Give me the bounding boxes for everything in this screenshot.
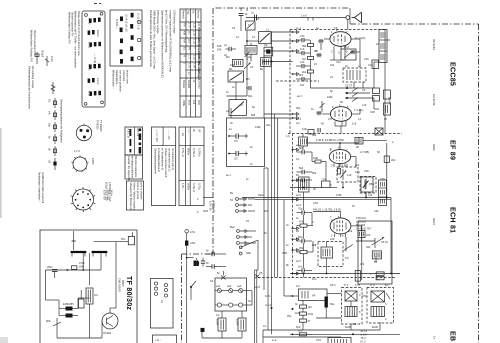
svg-text:on transmitter unit 1): on transmitter unit 1) <box>168 148 172 172</box>
svg-text:104: 104 <box>192 100 196 105</box>
smoothing cap block <box>79 299 85 308</box>
svg-text:0,1: 0,1 <box>263 324 267 328</box>
svg-text:2M5: 2M5 <box>282 251 288 255</box>
svg-text:92 9x61: 92 9x61 <box>432 39 436 50</box>
svg-text:1n5: 1n5 <box>352 122 357 126</box>
svg-text:30p: 30p <box>248 94 253 98</box>
cathode resistor V2 <box>338 164 341 174</box>
svg-text:an 3: an 3 <box>296 117 302 121</box>
tuning gang switch contacts <box>345 87 370 101</box>
screen decoupling Ca <box>322 177 331 188</box>
FM bottom row components <box>302 127 320 134</box>
svg-text:Kl. 2: Kl. 2 <box>361 340 367 343</box>
caps left of V3 <box>297 207 314 273</box>
svg-text:an 8: an 8 <box>255 285 261 289</box>
svg-text:d1 d2: d1 d2 <box>87 64 91 71</box>
switch-position box B (M404 coil board) <box>110 10 142 66</box>
AGC bus pair <box>242 197 391 199</box>
terminal t2 <box>292 40 294 42</box>
svg-text:TF80/30: TF80/30 <box>96 120 100 130</box>
svg-text:5k0: 5k0 <box>299 166 304 170</box>
junction dots on buses <box>303 187 305 189</box>
svg-text:1,25: 1,25 <box>193 23 197 29</box>
grid resistor r1 <box>296 39 302 41</box>
svg-text:La3: La3 <box>237 284 242 288</box>
padder trimmer diagonal <box>372 238 389 247</box>
capacitor C1 <box>239 12 248 31</box>
FM box input terminal arrows <box>292 31 299 120</box>
svg-text:TA: TA <box>230 198 233 202</box>
cap k2 <box>228 151 248 161</box>
svg-text:C15: C15 <box>364 57 369 61</box>
svg-text:EF 89: EF 89 <box>449 140 457 160</box>
coupling caps to terminals <box>206 249 226 269</box>
svg-text:87,5: 87,5 <box>187 100 191 106</box>
svg-text:39k: 39k <box>302 44 307 48</box>
right edge filter upper <box>384 90 391 99</box>
svg-text:an 9: an 9 <box>296 203 302 207</box>
svg-text:UF: UF <box>198 129 202 133</box>
svg-text:M1: M1 <box>229 67 233 71</box>
svg-text:F46.03 L.16.78/L.1.8.05: F46.03 L.16.78/L.1.8.05 <box>313 208 341 212</box>
svg-text:6SnDB: 6SnDB <box>187 80 191 88</box>
spark suppressor 2 <box>255 271 263 278</box>
pilot lamp 1 <box>217 289 221 293</box>
svg-text:Minuspol der Batterie an: Minuspol der Batterie an <box>129 183 133 211</box>
left column long wires <box>246 8 248 11</box>
svg-text:8,2: 8,2 <box>385 283 389 287</box>
svg-text:1M0: 1M0 <box>313 156 319 160</box>
corner screw bottom-left <box>84 102 87 105</box>
svg-text:Tr 2: Tr 2 <box>370 283 375 287</box>
svg-text:+ === 12V: + === 12V <box>155 130 159 142</box>
svg-text:ECH 81: ECH 81 <box>449 207 457 233</box>
FM box interior resistor chain <box>296 34 314 81</box>
svg-text:12k: 12k <box>348 229 353 233</box>
svg-text:5,0k: 5,0k <box>302 127 308 131</box>
svg-text:Ratio: Ratio <box>258 193 265 197</box>
small cap below M1 <box>246 86 251 90</box>
coil contact b-r4 <box>130 46 133 51</box>
svg-text:0,78/0u: 0,78/0u <box>198 148 202 157</box>
svg-text:F 46 B K2./BFG.L./4780.: F 46 B K2./BFG.L./4780. <box>316 138 345 142</box>
caps left of V2 <box>297 146 313 182</box>
svg-text:10n: 10n <box>298 265 303 269</box>
svg-text:m: m <box>192 80 195 82</box>
svg-text:EB: EB <box>449 331 457 341</box>
electrolytic cap vertical <box>325 297 328 308</box>
oscillator coil assembly L6/L7 <box>343 64 366 82</box>
fuse <box>185 241 188 246</box>
svg-text:a1 a2: a1 a2 <box>87 18 91 25</box>
svg-text:modification rights reserved: modification rights reserved <box>41 172 45 204</box>
terminal R1 <box>164 283 167 286</box>
svg-text:1x: 1x <box>433 336 437 340</box>
svg-text:1,35: 1,35 <box>193 31 197 37</box>
legend symbol trimmer <box>45 56 54 66</box>
scan edge shading left <box>0 128 2 218</box>
svg-text:40p: 40p <box>266 123 271 127</box>
svg-text:C1: C1 <box>232 26 236 30</box>
svg-text:E250C85: E250C85 <box>63 302 74 306</box>
speaker terminal box <box>151 279 174 329</box>
svg-text:L4.60.26 78.7: L4.60.26 78.7 <box>356 227 372 231</box>
svg-text:1,23: 1,23 <box>193 39 197 45</box>
rail to mains cap <box>94 241 129 243</box>
svg-text:Betriebsspannung der Kondensat: Betriebsspannung der Kondensatoren <box>28 66 32 109</box>
wires inside FM box <box>324 38 330 40</box>
svg-text:0,54: 0,54 <box>313 201 319 205</box>
svg-text:Spannungen gemessen mit Röhren: Spannungen gemessen mit Röhrenvoltmeter … <box>161 10 165 78</box>
right column wire <box>390 198 392 274</box>
IF stage bus <box>290 187 322 189</box>
svg-text:0,78u: 0,78u <box>198 183 202 190</box>
svg-text:6k8: 6k8 <box>312 243 317 247</box>
svg-text:500µF: 500µF <box>41 50 45 58</box>
coupling caps near V1a <box>315 39 356 57</box>
svg-text:6,7W–U: 6,7W–U <box>192 148 196 157</box>
svg-text:M3: M3 <box>246 77 250 81</box>
svg-text:10k: 10k <box>330 63 335 67</box>
bottom bus wires <box>263 329 380 331</box>
svg-text:8,1: 8,1 <box>183 47 187 51</box>
feedback wires <box>241 240 258 247</box>
detector transformer <box>372 251 381 264</box>
terminal t3 <box>292 50 294 52</box>
svg-text:6SnDA: 6SnDA <box>182 80 186 88</box>
power supply box TF80/30z <box>40 8 402 343</box>
svg-text:C18: C18 <box>370 110 375 114</box>
svg-text:1 b 9: 1 b 9 <box>301 14 307 18</box>
battery mode note box <box>152 127 176 206</box>
svg-text:6,3V=1A: 6,3V=1A <box>106 190 110 200</box>
mains terminal A <box>185 229 196 257</box>
svg-text:f1 f2: f1 f2 <box>87 91 91 97</box>
svg-text:Shown in position FM: Shown in position FM <box>71 12 75 36</box>
svg-text:U/e: U/e <box>48 123 52 128</box>
svg-text:1,5V–: 1,5V– <box>181 183 185 190</box>
svg-text:Lu 1: Lu 1 <box>296 26 302 30</box>
svg-text:0,3: 0,3 <box>296 284 300 288</box>
AM osc coil <box>233 59 244 66</box>
svg-text:50n: 50n <box>121 237 126 241</box>
svg-text:L.16.013: L.16.013 <box>356 220 366 224</box>
svg-text:1k0: 1k0 <box>300 83 305 87</box>
svg-text:lead to ground: lead to ground <box>136 183 140 200</box>
tone control box bottom <box>328 338 351 343</box>
svg-text:0,7W~U: 0,7W~U <box>192 183 196 192</box>
coil contact b-l4 <box>120 50 123 55</box>
svg-text:M 404 ←: M 404 ← <box>115 19 119 30</box>
svg-text:0,1: 0,1 <box>216 313 220 317</box>
svg-text:C3: C3 <box>256 17 260 21</box>
junction dots bottom <box>271 307 273 309</box>
svg-text:an 1: an 1 <box>226 173 232 177</box>
coil contact b-l5 <box>120 59 123 64</box>
tube socket S3 (10-pin) <box>71 187 96 212</box>
pin bar b2 <box>139 134 142 141</box>
pin bar b4 <box>139 147 142 154</box>
svg-text:56k: 56k <box>312 171 317 175</box>
resistor r3 <box>308 57 314 60</box>
pin dot a3 <box>130 149 132 152</box>
speaker wires <box>362 295 367 297</box>
switch contact group a3 <box>89 43 92 47</box>
left edge component of detector box <box>355 271 360 282</box>
svg-text:C5: C5 <box>334 26 338 30</box>
svg-text:A B C D: A B C D <box>126 129 130 138</box>
heptode V3 ECH81 <box>330 214 351 237</box>
connector pin table <box>125 127 143 155</box>
svg-text:L14: L14 <box>368 193 373 197</box>
svg-text:2k4: 2k4 <box>302 70 307 74</box>
antenna connector circle <box>346 16 350 20</box>
svg-text:220: 220 <box>298 329 303 333</box>
svg-text:1k0: 1k0 <box>308 305 313 309</box>
svg-text:E50A: E50A <box>236 319 240 326</box>
svg-text:Masse / battery negative: Masse / battery negative <box>133 183 137 211</box>
pickup terminal group TA <box>230 198 255 213</box>
svg-text:C31: C31 <box>374 209 379 213</box>
svg-text:DC working voltage: DC working voltage <box>31 66 35 89</box>
output transformer dashed box 1 <box>342 288 363 325</box>
power transformer primary 2 <box>236 318 247 331</box>
svg-text:0,2: 0,2 <box>296 121 300 125</box>
svg-text:c1 c2: c1 c2 <box>87 42 91 49</box>
volume pot symbol <box>187 258 199 266</box>
svg-text:9x63: 9x63 <box>432 218 436 225</box>
terminal t4 <box>292 73 294 75</box>
bandswitch segment box <box>246 21 256 30</box>
svg-text:C14: C14 <box>368 63 373 67</box>
svg-text:90V=: 90V= <box>110 190 114 197</box>
svg-text:0,8: 0,8 <box>328 117 332 121</box>
svg-text:16 V: 16 V <box>361 336 367 340</box>
svg-text:48/0m: 48/0m <box>187 148 191 155</box>
wavechange switch contact 2 <box>229 96 246 115</box>
svg-text:AM: AM <box>183 39 187 43</box>
crystal at FM box bottom <box>375 128 383 135</box>
svg-text:TA: TA <box>246 219 249 223</box>
corner screw top-right <box>100 12 103 15</box>
detector pot diagonal <box>344 244 353 252</box>
triode V1b ECC85 <box>330 107 351 126</box>
svg-text:MHz: MHz <box>197 100 201 106</box>
svg-text:6,3V~2A: 6,3V~2A <box>209 201 213 211</box>
terminal R3 <box>164 294 167 297</box>
table row lines <box>180 21 201 23</box>
svg-text:470k: 470k <box>79 261 85 265</box>
heater winding <box>86 288 93 304</box>
svg-text:A 7,9(B): A 7,9(B) <box>360 150 369 154</box>
mains wiring <box>221 311 223 318</box>
svg-text:EL95: EL95 <box>372 325 379 329</box>
corner screw bottom-right <box>101 101 104 104</box>
svg-text:1,04: 1,04 <box>193 63 197 69</box>
IF trap <box>355 138 363 145</box>
svg-text:30p: 30p <box>296 106 301 110</box>
svg-text:490: 490 <box>376 274 381 278</box>
terminal circle B1 <box>138 20 141 23</box>
legend voltage symbols column <box>48 98 57 170</box>
svg-text:E50A: E50A <box>216 319 220 326</box>
chassis boundary dash-dot notch vertical <box>181 254 183 343</box>
svg-text:BV040: BV040 <box>388 97 392 105</box>
legend spark symbol <box>51 82 55 94</box>
FM RF choke pair right <box>373 88 380 101</box>
AM IF transformer dashed box <box>318 242 343 267</box>
svg-text:–––: ––– <box>187 129 190 134</box>
svg-text:6,7M Hz: 6,7M Hz <box>197 79 201 89</box>
svg-text:an 6: an 6 <box>296 259 302 263</box>
svg-text:2,1: 2,1 <box>358 117 362 121</box>
svg-text:9V: 9V <box>188 47 192 50</box>
svg-text:1,51: 1,51 <box>188 63 192 69</box>
selector feed stub <box>73 242 75 251</box>
svg-text:70p: 70p <box>298 207 303 211</box>
svg-text:Gleichspannungswerte: Gleichspannungswerte <box>154 148 158 174</box>
svg-text:470k: 470k <box>308 312 314 316</box>
terminal circle B3 <box>138 56 141 59</box>
decoupling resistor on HT riser <box>384 156 395 162</box>
triode V1a ECC85 <box>330 32 351 49</box>
svg-text:1M: 1M <box>302 57 306 61</box>
terminal circle B2 <box>138 38 141 41</box>
svg-text:0,78: 0,78 <box>355 283 361 287</box>
pot in supply <box>53 322 61 326</box>
legend symbol electrolytic <box>35 50 45 64</box>
bottom left small resistors <box>296 329 312 336</box>
svg-text:470k: 470k <box>336 193 342 197</box>
svg-text:an 4: an 4 <box>296 143 302 147</box>
svg-text:LS: LS <box>160 300 164 303</box>
AM coil L2 <box>245 43 257 54</box>
pin square b3 <box>139 143 142 146</box>
series capacitor on antenna wire <box>251 11 257 21</box>
rectifier diode 1 <box>66 307 73 311</box>
ECH81 wires <box>303 192 305 210</box>
svg-text:C4: C4 <box>264 43 268 47</box>
svg-text:K2 9x49: K2 9x49 <box>432 94 436 106</box>
svg-text:4700: 4700 <box>50 56 54 62</box>
svg-text:e1 e2: e1 e2 <box>96 78 100 85</box>
pin bar a2 <box>130 139 132 146</box>
svg-text:coil board –: coil board – <box>122 70 126 84</box>
svg-text:25k: 25k <box>299 246 304 250</box>
svg-text:U 0,4: U 0,4 <box>265 303 272 307</box>
svg-text:L6.2: L6.2 <box>344 45 350 49</box>
svg-text:FM: FM <box>183 23 187 27</box>
svg-text:+ Ω −: + Ω − <box>155 339 162 342</box>
svg-text:Bu2: Bu2 <box>230 225 235 229</box>
dipole antenna symbol <box>352 12 362 22</box>
supply wiring <box>44 270 46 300</box>
svg-text:Shown in position FM: Shown in position FM <box>33 30 37 54</box>
svg-text:10n: 10n <box>312 277 317 281</box>
svg-text:170: 170 <box>188 23 192 28</box>
svg-text:0,9: 0,9 <box>345 256 349 260</box>
ferrite rod antenna <box>259 28 271 44</box>
resistor stack AF <box>300 301 314 331</box>
oscillator coupling box <box>341 45 356 60</box>
mains selector contact bar 1 <box>71 251 87 253</box>
scan edge shading bottom-left <box>0 337 8 343</box>
switch contact group a4 <box>89 65 92 69</box>
FM tuner dashed enclosure <box>290 29 385 31</box>
AM feed dashed wire <box>276 80 319 82</box>
AF amp block <box>299 289 328 301</box>
svg-text:C24: C24 <box>355 170 360 174</box>
svg-text:167: 167 <box>188 31 192 36</box>
svg-text:25µ: 25µ <box>287 314 292 318</box>
svg-text:30k: 30k <box>312 133 317 137</box>
mixer coupling box <box>261 58 271 67</box>
svg-text:b1 b2: b1 b2 <box>96 30 100 37</box>
svg-text:TT RX/RX: TT RX/RX <box>99 120 103 132</box>
lower rail <box>45 269 101 271</box>
terminal t1 <box>292 31 294 33</box>
svg-text:on transistor unit 2): on transistor unit 2) <box>171 148 175 170</box>
switch contact group a2 <box>88 31 91 35</box>
tuning gang AM <box>244 54 254 70</box>
svg-text:Batterie-Ladegerät: Batterie-Ladegerät <box>134 156 138 177</box>
mains filter cap <box>128 236 134 244</box>
svg-text:U1: U1 <box>48 99 52 103</box>
terminal L1 <box>154 282 157 285</box>
svg-text:0,1: 0,1 <box>296 157 300 161</box>
svg-text:R8,2: R8,2 <box>369 182 375 186</box>
svg-text:Betriebsspannung an allen Punk: Betriebsspannung an allen Punkten gemess… <box>149 10 153 67</box>
svg-text:Änderungen vorbehalten !: Änderungen vorbehalten ! <box>38 172 42 202</box>
svg-text:L12: L12 <box>355 163 360 167</box>
svg-text:130p: 130p <box>255 125 261 129</box>
svg-text:5µ0: 5µ0 <box>296 325 301 329</box>
svg-text:c1 c3 c5 c7 c9: c1 c3 c5 c7 c9 <box>136 13 140 30</box>
tube socket S1 (3-pin) <box>76 124 91 141</box>
left stub wires at boundary <box>203 197 213 199</box>
resistor r4 <box>308 70 314 73</box>
svg-text:NF 2: NF 2 <box>330 283 336 287</box>
table col line 1 <box>185 9 187 117</box>
svg-text:470: 470 <box>300 34 305 38</box>
rectifier diode 2 <box>66 314 73 318</box>
svg-text:135V battery voltage: 135V battery voltage <box>173 10 177 34</box>
coupling coil small <box>372 60 379 69</box>
coil contact b-l2 <box>120 28 123 33</box>
connector caption cell <box>125 155 143 179</box>
svg-text:L10: L10 <box>362 103 367 107</box>
box top feed <box>73 231 75 241</box>
svg-text:D1: D1 <box>95 293 99 297</box>
svg-text:Range switch out 87 board bott: Range switch out 87 board bottom view <box>77 11 81 56</box>
svg-text:1M: 1M <box>264 209 268 213</box>
svg-text:a b c d: a b c d <box>136 129 140 137</box>
svg-text:0,5A: 0,5A <box>190 241 196 245</box>
svg-text:50µ: 50µ <box>330 302 335 306</box>
cap k1 <box>228 134 248 144</box>
svg-text:Bereich: Bereich <box>182 10 186 19</box>
terminal t5 <box>292 113 294 115</box>
svg-text:von unten gesehen: von unten gesehen <box>119 70 123 92</box>
svg-text:C12: C12 <box>336 60 341 64</box>
drop wire from boundary to mixer column <box>240 8 242 11</box>
svg-text:pole to chassis: pole to chassis <box>140 183 144 201</box>
svg-text:1M0: 1M0 <box>79 265 85 269</box>
voltage table <box>180 9 201 117</box>
svg-text:6,3V~U: 6,3V~U <box>181 148 185 157</box>
chassis boundary dash-dot right edge <box>478 24 480 343</box>
svg-text:240k: 240k <box>327 95 333 99</box>
